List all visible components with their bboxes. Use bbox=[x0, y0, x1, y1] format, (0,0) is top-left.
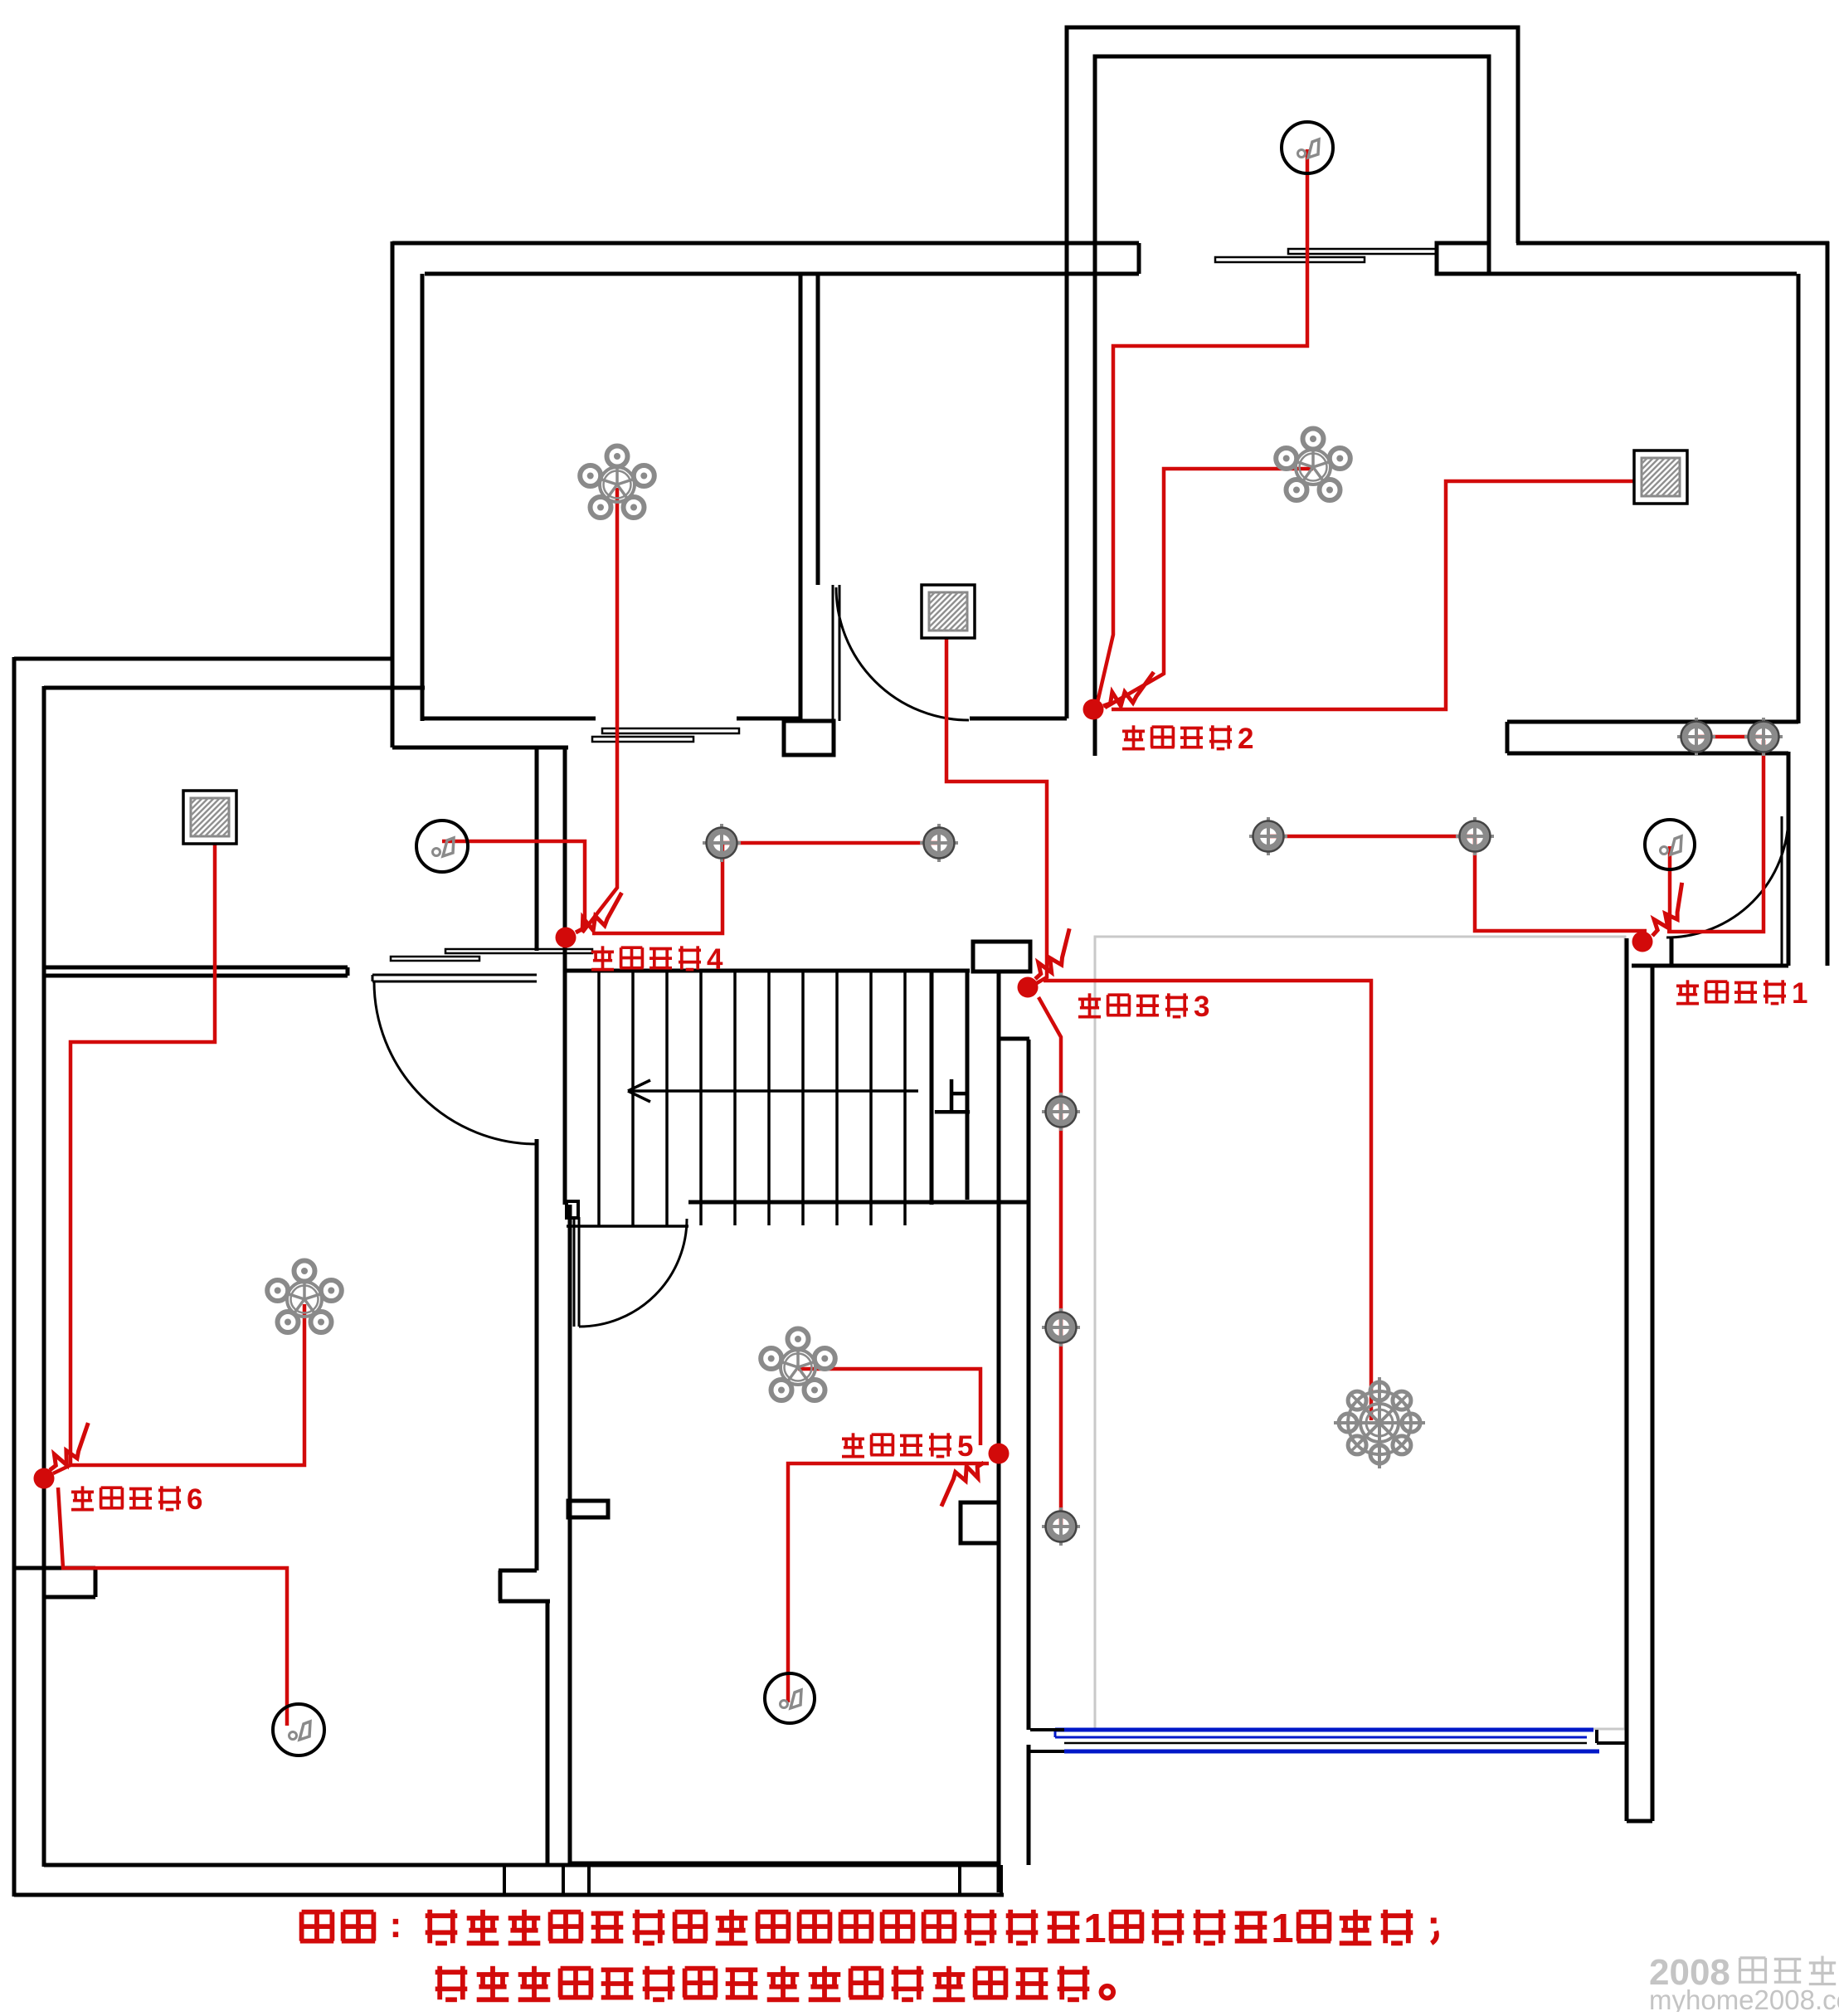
spotlight corridor 2 bbox=[1042, 1308, 1080, 1346]
lamp entry circle light bbox=[416, 821, 468, 872]
svg-text:2: 2 bbox=[1238, 723, 1253, 755]
wall left outer vertical of main block bbox=[391, 241, 395, 747]
spotlight corridor 3 bbox=[1042, 1507, 1080, 1546]
wall cap below block bbox=[999, 1037, 1029, 1041]
wall living room right line east bbox=[1651, 967, 1655, 1821]
label 智能开关3 bbox=[1088, 993, 1092, 1016]
wall door sill piece right hallway bbox=[1670, 938, 1674, 966]
wire wall spotlight down to switch1 bbox=[1667, 740, 1764, 932]
wall corridor column left bbox=[1065, 243, 1069, 718]
sliding door balcony lower leaf bbox=[1215, 257, 1365, 262]
svg-text:1: 1 bbox=[1271, 1906, 1293, 1951]
wall dining top bbox=[688, 1200, 1029, 1205]
wire switch4 to bedroom1 chandelier bbox=[582, 488, 617, 933]
wall room-top band line2 left wing bbox=[44, 974, 348, 978]
wire switch2 to kitchen vent bbox=[1112, 481, 1656, 709]
door dining leaf bbox=[573, 1217, 576, 1327]
wall bottom-left room2 east side bbox=[546, 1601, 550, 1867]
wall column foot below bedroom1 bbox=[784, 721, 834, 755]
wall study bottom right piece bbox=[970, 717, 1067, 721]
spotlight wall band 1 bbox=[1677, 718, 1715, 756]
spotlight wall band 2 bbox=[1744, 718, 1783, 756]
wire switch6 to room1 chandelier bbox=[71, 1304, 304, 1465]
wall cap right door sill bbox=[1632, 964, 1788, 968]
wall right inner east side lower bbox=[1787, 752, 1791, 966]
wall main top outer right segment bbox=[1516, 241, 1829, 246]
svg-text:6: 6 bbox=[187, 1483, 202, 1516]
window blue bottom line2 bbox=[1055, 1736, 1587, 1739]
text 上 stair label bbox=[950, 1079, 954, 1112]
wall stub staircase bottom-left bbox=[567, 1201, 578, 1218]
sliding door entry upper leaf bbox=[445, 949, 592, 953]
wire wall spotlights pair bbox=[1696, 735, 1764, 739]
chandelier bedroom1 5-arm bbox=[580, 446, 654, 519]
wall balcony outer bbox=[1067, 27, 1518, 243]
sliding door bedroom1 lower leaf bbox=[592, 737, 693, 742]
wall bottom band inner bbox=[44, 1863, 999, 1867]
spotlight hallway 1 bbox=[703, 824, 741, 862]
wall dining right line west bbox=[997, 971, 1001, 1892]
wall right outer east side bbox=[1826, 241, 1830, 966]
wall stub right of balcony door bbox=[1137, 243, 1141, 274]
wire switch3 corridor spotlight chain bbox=[1039, 997, 1061, 1527]
window blue left cap bbox=[1054, 1730, 1057, 1737]
chandelier left wing room1 5-arm bbox=[267, 1261, 342, 1333]
switch dot 智能开关1 bbox=[1632, 932, 1653, 952]
wall pillar dining right top bbox=[961, 1502, 999, 1543]
spotlight hallway 3 bbox=[1249, 817, 1287, 855]
wire switch3 to bathroom vent bbox=[946, 618, 1047, 986]
door dining arc bbox=[579, 1219, 687, 1327]
window blue bottom line1 bbox=[1055, 1728, 1593, 1732]
wire switch6 to room2 lamp bbox=[58, 1488, 287, 1726]
label 智能开关2 bbox=[1132, 725, 1136, 748]
wall below block line1 bbox=[966, 971, 970, 1200]
vent light bathroom square bbox=[922, 585, 975, 638]
lamp dining bottom circle light bbox=[765, 1673, 815, 1723]
door study leaf bbox=[832, 585, 834, 721]
wire switch4 to entry lamp bbox=[442, 841, 585, 929]
wall study left bbox=[816, 274, 820, 585]
door study arc bbox=[836, 587, 969, 720]
wall block right of staircase bbox=[973, 942, 1030, 971]
switch dot 智能开关3 bbox=[1018, 977, 1039, 998]
note line 2 max three light groups per switch bbox=[435, 1970, 468, 1975]
wire switch5 to dining lamp bbox=[788, 1463, 989, 1702]
svg-text:3: 3 bbox=[1194, 991, 1209, 1023]
svg-text:myhome2008.com: myhome2008.com bbox=[1649, 1984, 1839, 2012]
wire right pair down to switch1 bbox=[1475, 836, 1647, 931]
svg-text:1: 1 bbox=[1792, 977, 1807, 1010]
label 智能开关5 bbox=[852, 1433, 855, 1456]
label 智能开关4 bbox=[601, 946, 605, 969]
wall room-top band cap left wing bbox=[346, 967, 350, 976]
wall staircase right bbox=[930, 971, 934, 1205]
window right step black bbox=[1595, 1730, 1598, 1743]
wall right inner east side upper bbox=[1797, 274, 1801, 723]
label 智能开关1 bbox=[1686, 980, 1690, 1003]
staircase risers bbox=[599, 972, 905, 1225]
watermark 2008myhome bbox=[1649, 1952, 1730, 1993]
door entry main arc bbox=[374, 981, 537, 1144]
lamp right hallway circle light bbox=[1645, 820, 1695, 869]
sliding door entry lower leaf bbox=[391, 957, 479, 961]
wire switch5 to dining chandelier bbox=[798, 1369, 980, 1445]
wire hallway spotlight pair left bbox=[722, 841, 939, 845]
chandelier dining 5-arm bbox=[761, 1329, 835, 1401]
window left wall piece bbox=[1030, 1728, 1064, 1731]
lamp balcony circle light bbox=[1282, 122, 1333, 173]
spotlight hallway 4 bbox=[1456, 817, 1494, 855]
wall bottom band outer bbox=[14, 1893, 1004, 1897]
svg-text:4: 4 bbox=[707, 943, 723, 976]
wall kitchen bottom band bottom line bbox=[1507, 752, 1788, 756]
wall pillar dining left side bbox=[568, 1501, 608, 1517]
chandelier kitchen 5-arm bbox=[1276, 429, 1350, 501]
wall left inner west side bbox=[42, 686, 46, 1867]
wall left wing top outer bbox=[14, 657, 392, 661]
wire switch3 to living chandelier bbox=[1044, 981, 1371, 1420]
wall entry band right line bbox=[563, 749, 567, 1205]
wire switch2 to balcony lamp bbox=[1097, 149, 1307, 706]
wall dining left bbox=[568, 1205, 572, 1865]
door entry main leaf bbox=[372, 974, 537, 976]
wall dining right line east upper bbox=[1027, 1040, 1031, 1730]
wall bedroom1 bottom right piece bbox=[737, 717, 800, 721]
wire hallway spotlight pair right bbox=[1268, 835, 1475, 839]
note line 1 important wiring instruction bbox=[302, 1910, 333, 1915]
spotlight hallway 2 bbox=[920, 824, 958, 862]
wall hallway nook bottom bbox=[392, 746, 568, 750]
sliding door balcony upper leaf bbox=[1288, 249, 1438, 254]
gray ceiling outline living room bbox=[1095, 937, 1625, 1729]
window black mid line bbox=[1064, 1742, 1587, 1745]
wall chunk between slider and balcony right bbox=[1437, 243, 1489, 274]
wall staircase top bbox=[567, 969, 970, 973]
vent light left wing square bbox=[183, 791, 236, 844]
wall kitchen bottom band top line bbox=[1507, 720, 1798, 724]
wall corridor column right bbox=[1093, 243, 1097, 756]
door right-hallway arc bbox=[1666, 816, 1788, 937]
lamp bottom-left room circle light bbox=[273, 1704, 324, 1755]
door right-hallway leaf bbox=[1781, 816, 1783, 965]
wire switch4 to hallway spotlights bbox=[592, 843, 722, 933]
switch dot 智能开关4 bbox=[556, 928, 577, 948]
staircase up arrow bbox=[628, 1089, 918, 1093]
wall living room right line west bbox=[1625, 938, 1629, 1821]
wall divider Z-jog bottom bbox=[499, 1600, 550, 1604]
label 智能开关6 bbox=[81, 1486, 85, 1509]
svg-text:1: 1 bbox=[1083, 1906, 1106, 1951]
wall left outer west side bbox=[12, 657, 17, 1897]
wall divider Z-jog top bbox=[499, 1569, 537, 1573]
wire switch2 to kitchen chandelier bbox=[1105, 469, 1313, 708]
wall entry band left line upper bbox=[535, 749, 539, 951]
switch dot 智能开关2 bbox=[1083, 699, 1104, 720]
wall balcony inner bbox=[1095, 56, 1489, 243]
wall main top inner left bbox=[425, 272, 1139, 276]
wall bedroom1 left bbox=[421, 274, 425, 721]
switch dot 智能开关5 bbox=[989, 1444, 1010, 1464]
wall kitchen bottom band left cap bbox=[1506, 722, 1510, 753]
wall living room right bottom cap bbox=[1627, 1819, 1652, 1824]
wall divider bottomleft rooms left piece bbox=[14, 1566, 95, 1570]
chandelier living room 8-arm bbox=[1334, 1377, 1425, 1468]
svg-text:5: 5 bbox=[957, 1430, 973, 1463]
wall bottom band stubs bbox=[503, 1865, 506, 1895]
wire switch6 to left wing vent bbox=[53, 821, 215, 1473]
wall entry band left line lower bbox=[535, 1139, 539, 1570]
window blue bottom line3 bbox=[1064, 1750, 1599, 1754]
wall bedroom1 right bbox=[799, 274, 803, 721]
wall bedroom1 bottom left piece bbox=[422, 717, 596, 721]
wall dining right line east lower bbox=[1027, 1745, 1031, 1865]
vent light kitchen right square bbox=[1634, 450, 1687, 504]
wall main top outer left segment bbox=[392, 241, 1139, 246]
wall left wing top inner bbox=[44, 686, 425, 690]
sliding door bedroom1 upper leaf bbox=[602, 728, 739, 733]
wall room-top band line1 left wing bbox=[44, 966, 348, 970]
wall divider Z-jog vertical bbox=[499, 1570, 503, 1601]
wall dining bottom bbox=[570, 1862, 999, 1866]
spotlight corridor 1 bbox=[1042, 1093, 1080, 1131]
staircase bottom left edge bbox=[567, 1225, 688, 1228]
wall main top inner right bbox=[1437, 272, 1797, 276]
switch dot 智能开关6 bbox=[34, 1468, 55, 1489]
wire right hallway lamp to switch1 bbox=[1668, 846, 1672, 931]
